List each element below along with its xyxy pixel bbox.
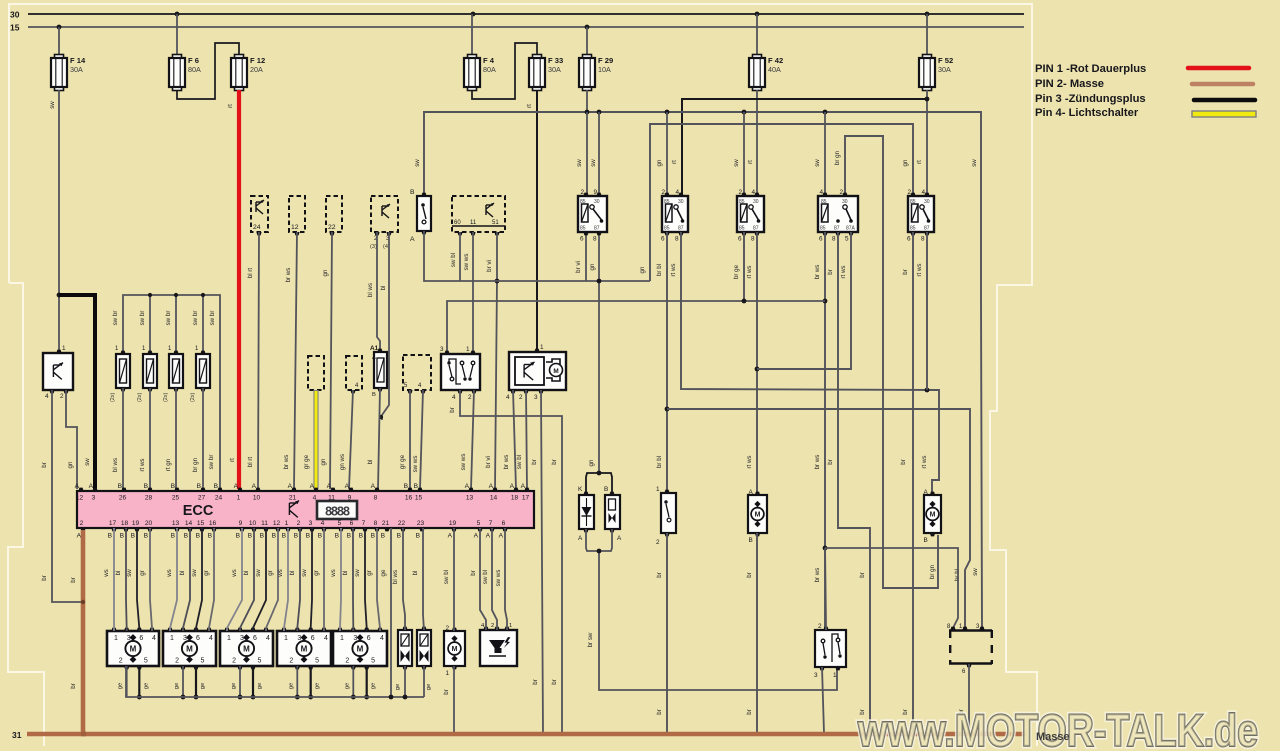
svg-text:30: 30 [753,199,759,205]
wire gr-ge X5 to ECC pin16 [409,390,411,489]
svg-text:6: 6 [738,236,742,243]
svg-text:gn: gn [656,159,663,166]
node sw-F29 [585,110,590,115]
wire ge M2 pin5 [195,666,197,697]
svg-text:br: br [41,462,48,468]
svg-text:ge: ge [395,684,401,690]
svg-text:15: 15 [10,23,20,33]
bus 31 ground [27,732,1026,737]
solenoid valve Y1 [398,627,412,670]
wire br-gn relayC pin2 riser [845,136,938,588]
pump motor [444,625,465,677]
svg-text:87: 87 [834,226,840,232]
stepper motor M4 [277,628,331,670]
wire sw from F14 down to sensor box [58,90,60,350]
sensor connector (2)(4) [371,196,398,232]
svg-text:4: 4 [45,393,49,400]
wire gn bracket to K1 B1 [586,473,612,493]
valve B1 [605,495,620,529]
wire bl ws thermistor to ECC [122,388,124,489]
svg-text:B: B [260,533,265,540]
svg-text:rt ws: rt ws [746,455,753,468]
svg-text:2: 2 [175,658,179,665]
wire br relayD pin6 to ground bus [912,232,914,733]
wire br-ws AC pin4 to ECC pin18 [513,390,516,489]
svg-text:br gn: br gn [834,150,841,165]
svg-text:br gn: br gn [929,564,936,579]
svg-text:22: 22 [328,224,336,231]
svg-text:19: 19 [449,520,457,527]
wire rt ws thermistor to ECC [149,388,151,489]
wire bl-rt X24 to ECC pin10 [258,232,259,489]
svg-text:A: A [234,483,239,490]
svg-text:A: A [372,355,376,361]
svg-text:sw br: sw br [209,311,216,326]
node sw-br bus 2 [148,293,152,297]
wire sw drop to relay B pin2 [743,112,745,196]
svg-text:sw: sw [255,569,262,577]
ignition switch S (B/A) [417,196,431,231]
svg-text:A: A [371,483,376,490]
wire br-ws X12 to ECC pin21 [294,232,297,489]
svg-text:8: 8 [374,495,378,502]
svg-text:ge: ge [257,683,263,689]
svg-text:br ws: br ws [283,455,290,470]
svg-text:21: 21 [382,520,390,527]
svg-text:gn ws: gn ws [339,454,346,470]
svg-text:11: 11 [328,495,335,502]
temperature sensor R1 [110,346,130,402]
wire sw ECC to M3 pin [253,528,266,631]
svg-text:2: 2 [519,394,523,401]
svg-text:ge: ge [143,683,149,689]
svg-text:17: 17 [109,520,117,527]
node ge bus M4 [295,695,300,700]
fuse F 4 80A [464,55,496,91]
svg-text:2: 2 [232,658,236,665]
svg-text:gn: gn [589,263,596,270]
svg-text:B: B [197,483,202,490]
svg-text:Pin 4- Lichtschalter: Pin 4- Lichtschalter [1035,107,1139,119]
svg-text:sw bl: sw bl [516,455,523,469]
wire br flap switch pin3 to ground bus [822,667,824,733]
wire gn-ws X4 to ECC pin9 [349,390,353,489]
svg-text:bl: bl [289,571,296,576]
svg-text:8: 8 [675,236,679,243]
svg-text:19: 19 [132,520,140,527]
svg-text:22: 22 [398,520,406,527]
svg-text:br: br [70,577,77,583]
wire br-sw diodes to heated-flap switch pin1 [586,529,612,551]
svg-text:sw: sw [126,569,133,577]
svg-text:B: B [347,533,352,540]
svg-text:A: A [89,483,94,490]
wire bl ECC to M2 pin [183,528,190,631]
svg-text:5: 5 [258,658,262,665]
svg-text:bl: bl [243,571,250,576]
svg-text:14: 14 [185,520,193,527]
svg-text:18: 18 [511,495,519,502]
svg-text:6: 6 [139,635,143,642]
wire ge bus [126,666,424,697]
svg-text:87A: 87A [846,226,856,232]
svg-text:4: 4 [452,394,456,401]
svg-text:bl: bl [380,286,387,291]
svg-text:Masse: Masse [1036,731,1070,743]
node bus15-F29 [585,25,590,30]
svg-text:sw: sw [971,159,978,167]
svg-text:5: 5 [845,236,849,243]
svg-text:B: B [171,483,176,490]
svg-text:2: 2 [289,658,293,665]
wire sw-bl ECC pin19 to pump [453,528,455,631]
wire gr ECC to M3 pin [266,528,278,631]
svg-text:85: 85 [580,199,586,205]
stepper motor M5 [333,628,387,670]
wire sw-br thermistor 3 riser [175,295,177,352]
node bl junction under A1 [379,415,383,419]
svg-text:6: 6 [253,635,257,642]
node sw-relayA [665,110,670,115]
svg-text:B: B [749,537,753,544]
svg-text:M: M [553,368,558,375]
svg-text:30: 30 [678,199,684,205]
svg-text:br: br [900,459,907,465]
svg-text:6: 6 [350,520,354,527]
svg-text:4: 4 [324,635,328,642]
svg-text:5: 5 [371,658,375,665]
svg-text:A: A [521,483,526,490]
svg-text:3: 3 [240,635,244,642]
svg-text:87: 87 [924,226,930,232]
svg-text:80A: 80A [188,65,201,74]
svg-text:br gn: br gn [192,457,199,472]
svg-text:15: 15 [197,520,205,527]
svg-text:br: br [827,269,834,275]
svg-text:4: 4 [752,189,756,196]
wire F4-F33 link [472,43,537,99]
wire thick black Zuendungsplus to ECC pin3 [59,295,95,489]
svg-text:85: 85 [910,226,916,232]
svg-text:13: 13 [172,520,180,527]
svg-text:F 6: F 6 [188,56,199,65]
stepper motor M2 [163,628,216,670]
svg-text:K: K [578,486,583,493]
svg-text:(3): (3) [370,244,377,250]
node br-vi line281 [495,279,500,284]
wire br washer pin4 right to ground drop [460,390,562,733]
wire F52 down through node to relay D pin4 [926,90,928,196]
svg-text:4: 4 [152,635,156,642]
svg-text:A1: A1 [370,345,379,352]
svg-text:2: 2 [656,539,660,546]
svg-text:B: B [118,483,123,490]
svg-text:sw ws: sw ws [412,456,419,473]
svg-text:12: 12 [291,224,299,231]
svg-text:17: 17 [522,495,530,502]
svg-text:(2x): (2x) [110,393,116,402]
wire gr-ge light switch (yellow) to ECC pin4 [313,390,318,489]
svg-text:B: B [184,533,189,540]
wire br-ws relayC pin6 down to heated-flap switch [824,232,826,628]
node sw-relay1b [597,110,602,115]
svg-text:br ws: br ws [503,455,510,470]
svg-text:1: 1 [466,346,470,353]
wire ge M3 pin5 [252,666,254,697]
svg-text:ws: ws [277,569,284,578]
svg-text:br: br [70,683,77,689]
svg-text:3: 3 [297,635,301,642]
svg-text:2: 2 [818,623,822,630]
svg-text:4: 4 [506,394,510,401]
svg-text:3: 3 [309,520,313,527]
svg-text:A: A [749,489,754,496]
node br-ws y301 [823,299,828,304]
stepper motor M3 [220,628,273,670]
svg-text:sw bl: sw bl [482,570,489,584]
fuse F 52 30A [919,55,953,91]
svg-text:ge: ge [371,683,377,689]
svg-text:A: A [499,533,504,540]
node br-ws y548 [823,546,828,551]
svg-text:8: 8 [593,236,597,243]
wire F6-F12 link [177,43,239,99]
wire gr ECC to M4 pin [323,528,325,631]
wire gr ECC to M1 pin [150,528,152,631]
wire sw ECC to M5 pin [365,528,367,631]
svg-text:A: A [310,483,315,490]
wire sw drop to relay1 pin9 [598,112,600,196]
svg-text:51: 51 [492,220,499,226]
svg-text:40A: 40A [768,65,781,74]
svg-text:2: 2 [739,189,743,196]
svg-text:M: M [301,645,308,654]
connector X12 [289,196,305,232]
ECC bottom pins [77,520,508,540]
svg-text:9: 9 [239,520,243,527]
wire ge M1 pin5 [138,666,140,697]
svg-text:rt ws: rt ws [921,455,928,468]
sun sensor box [43,353,73,390]
svg-text:8: 8 [832,236,836,243]
wire sw drop to relay1 pin2 [586,112,588,196]
svg-text:A: A [345,483,350,490]
svg-text:gn: gn [639,266,646,273]
svg-text:6: 6 [502,520,506,527]
heater flap switch [815,630,846,667]
svg-text:bl ws: bl ws [367,283,374,297]
svg-text:gn: gn [322,269,329,276]
stepper motor M1 [107,628,159,670]
washer pump switch [441,354,480,390]
wire bl ECC to M3 pin [240,528,254,631]
svg-text:gr ge: gr ge [303,454,310,469]
svg-text:br: br [656,572,663,578]
svg-text:A: A [410,236,415,243]
wire sw-br thermistor 4 riser [202,295,204,352]
svg-text:sw br: sw br [139,311,146,326]
node bus30-F4 [471,12,476,17]
svg-text:11: 11 [261,520,268,527]
svg-text:2: 2 [840,189,844,196]
svg-text:bl: bl [115,571,122,576]
svg-text:sw: sw [84,458,91,466]
svg-text:bl ws: bl ws [392,570,399,584]
svg-text:5: 5 [315,658,319,665]
svg-text:5: 5 [338,520,342,527]
svg-text:sw: sw [814,159,821,167]
wire bl ECC to M1 pin [125,528,128,631]
svg-text:12: 12 [76,495,84,502]
wire rt-ws relayA pin8 to y389 line to motor D [681,232,939,493]
wire br pump to ground bus [453,666,455,733]
svg-text:F 14: F 14 [70,56,86,65]
svg-text:20A: 20A [250,65,263,74]
svg-text:5: 5 [144,658,148,665]
svg-text:ECC: ECC [183,503,214,519]
svg-text:6: 6 [907,236,911,243]
svg-text:85: 85 [821,199,827,205]
svg-text:br: br [656,709,663,715]
svg-text:rt: rt [227,104,234,108]
svg-text:(2x): (2x) [163,393,169,402]
svg-text:F 4: F 4 [483,56,495,65]
wire br blower switch to ground bus [666,533,668,733]
svg-text:br: br [859,572,866,578]
wire thick brown ECC pin2 ground trunk [81,530,86,733]
svg-text:br ge: br ge [733,264,740,279]
svg-text:30: 30 [924,199,930,205]
svg-text:2: 2 [581,189,585,196]
svg-text:www.MOTOR-TALK.de: www.MOTOR-TALK.de [857,705,1258,751]
wire ws ECC to M5 pin [340,528,341,631]
svg-text:B: B [318,533,323,540]
svg-text:B: B [381,533,386,540]
wire ws ECC to M4 pin [284,528,288,631]
relay D [907,189,934,243]
wire black line F52 to relay A pin4 [682,99,926,196]
svg-text:2: 2 [345,658,349,665]
wire br ECC pinA5 to buzzer [480,528,486,630]
wire ws ECC to M3 pin [227,528,242,631]
svg-text:23: 23 [417,520,425,527]
wire F52 top [926,14,928,55]
wire F4 top [471,14,473,55]
svg-text:85: 85 [664,199,670,205]
svg-text:sw bl: sw bl [450,253,457,267]
node gn diode bracket [597,471,602,476]
svg-text:sw: sw [733,159,740,167]
svg-text:sw: sw [972,568,979,576]
svg-text:18: 18 [121,520,129,527]
svg-text:bl rt: bl rt [247,268,254,279]
wire line548 to rear box pin8 [825,548,958,628]
svg-text:br sw: br sw [587,632,594,647]
svg-text:ge: ge [315,683,321,689]
svg-text:sw: sw [354,569,361,577]
svg-text:gn: gn [902,159,909,166]
svg-text:sw ws: sw ws [463,254,470,271]
svg-text:B: B [604,486,608,493]
svg-text:gr ge: gr ge [399,454,406,469]
legend pin colour key [1035,63,1256,119]
svg-text:rt ws: rt ws [670,263,677,276]
svg-text:1: 1 [170,635,174,642]
svg-text:6: 6 [580,236,584,243]
svg-text:4: 4 [380,635,384,642]
svg-text:4: 4 [676,189,680,196]
wire F42 down to relay B pin4 [756,90,758,196]
svg-text:85: 85 [664,226,670,232]
svg-text:31: 31 [12,730,22,740]
wire ge M3 pin2 [239,666,241,697]
svg-text:br ws: br ws [814,265,821,280]
wire sw drop to relay C pin4 [824,112,826,196]
svg-text:B: B [144,533,149,540]
svg-text:30: 30 [10,10,20,20]
svg-text:M: M [452,646,458,653]
svg-text:28: 28 [145,495,153,502]
svg-text:2: 2 [908,189,912,196]
svg-text:M: M [186,645,193,654]
svg-text:M: M [130,645,137,654]
svg-text:ge: ge [118,683,124,689]
motor D aux [924,489,942,544]
svg-text:2: 2 [297,520,301,527]
svg-text:2: 2 [662,189,666,196]
AC control unit [509,352,566,390]
svg-text:M: M [930,512,936,519]
svg-text:gn: gn [588,459,595,466]
svg-text:rt: rt [916,160,923,164]
node rt-ws y369 [755,367,760,372]
wire sw-bl from pin60 to line281 [459,232,461,281]
svg-text:ge: ge [174,683,180,689]
node ground trunk joint [81,600,85,604]
svg-text:B: B [108,533,113,540]
svg-text:B: B [171,533,176,540]
svg-text:B: B [120,533,125,540]
svg-text:1: 1 [509,623,512,629]
page outline border [8,4,1037,746]
svg-text:br: br [746,572,753,578]
svg-text:bl rt: bl rt [247,457,254,468]
wire F14 top [58,27,60,55]
wire br-vi from pin51 through node to ECC pin14 [495,232,497,489]
svg-text:3: 3 [814,672,818,679]
svg-text:B: B [404,483,409,490]
svg-text:PIN 2- Masse: PIN 2- Masse [1035,78,1104,90]
svg-text:6: 6 [819,236,823,243]
node bus30-F42 [755,12,760,17]
svg-text:14: 14 [490,495,498,502]
svg-text:60: 60 [454,220,461,226]
svg-text:10: 10 [253,495,261,502]
svg-text:sw bl: sw bl [443,570,450,584]
svg-text:ws: ws [231,569,238,578]
svg-text:sw br: sw br [165,311,172,326]
wire sw-ws X4b to ECC pin15 [420,390,423,489]
wire gn sensor pin2 to ECC pin12 [66,390,77,489]
wire ws ECC to M1 pin [113,528,115,631]
svg-text:(2x): (2x) [137,393,143,402]
wire br-vi relay1 pin6 into line [585,232,587,281]
svg-text:br bl: br bl [656,264,663,276]
svg-text:B: B [414,483,419,490]
wire bl ECC pin23 to valve Y2 [423,528,424,630]
wire sw drop to relay A pin2 [666,112,668,196]
svg-text:1: 1 [285,520,289,527]
